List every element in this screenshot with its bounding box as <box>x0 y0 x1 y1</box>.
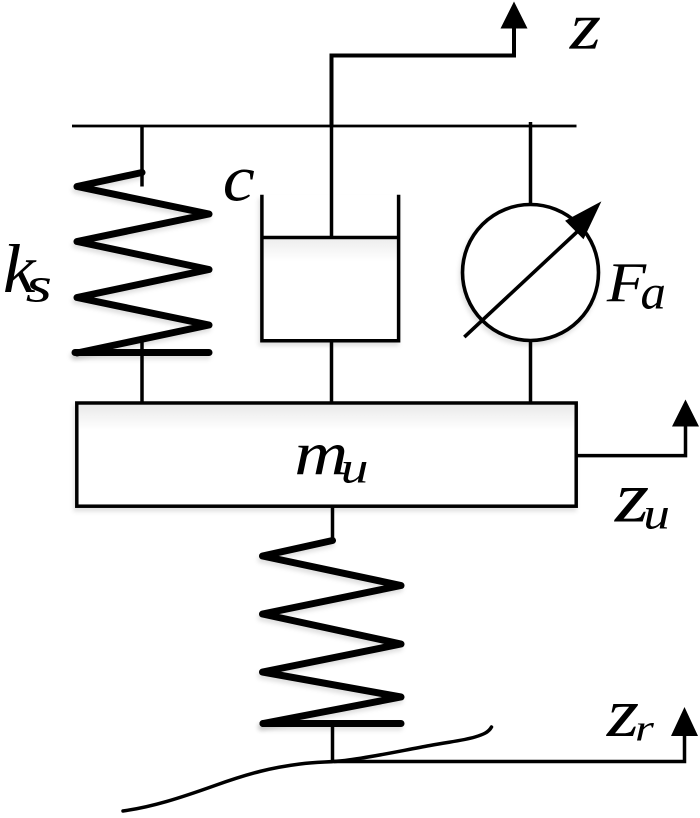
actuator arrow head <box>565 201 601 239</box>
wire zr baseline <box>334 736 685 762</box>
label zu - u <box>646 508 668 529</box>
tire spring bottom bar <box>263 720 401 727</box>
label mu - u <box>343 462 366 483</box>
label zu - z <box>614 488 648 522</box>
label Fa - F <box>606 264 646 301</box>
label Fa - a <box>642 286 664 309</box>
spring ks bottom stub <box>140 341 144 403</box>
arrow zu head <box>672 400 699 427</box>
damper rod <box>330 126 334 238</box>
tire spring bottom stub <box>331 724 335 762</box>
actuator wire top <box>529 122 533 206</box>
actuator wire bottom <box>529 340 533 404</box>
label zr - r <box>637 723 654 740</box>
label mu - m <box>297 445 345 474</box>
spring ks bottom bar <box>75 349 209 356</box>
label zr - z <box>606 704 638 736</box>
road profile curve <box>123 727 492 811</box>
damper cup <box>262 195 399 341</box>
arrow z head <box>501 2 528 29</box>
mass mu rectangle <box>77 403 576 506</box>
damper piston plate <box>262 236 399 240</box>
sprung-mass top bar <box>72 125 577 128</box>
label ks - s <box>26 278 50 302</box>
label ks - k <box>5 244 37 292</box>
tire spring top stub <box>331 507 335 542</box>
wire zu <box>577 426 686 456</box>
spring ks top stub <box>140 126 144 187</box>
actuator arrow line <box>464 231 578 337</box>
mass inner shade <box>79 405 574 430</box>
arrow zr head <box>671 707 698 736</box>
actuator circle Fa <box>463 205 599 341</box>
tire spring zigzag <box>263 541 402 724</box>
wire z branch <box>332 28 515 126</box>
damper bottom rod <box>330 341 334 403</box>
spring ks zigzag <box>77 173 209 354</box>
label z <box>569 18 600 49</box>
damper cup inner shade <box>264 240 397 262</box>
label c <box>225 169 254 201</box>
